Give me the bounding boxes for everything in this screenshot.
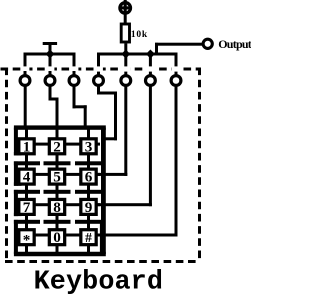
terminal column 3 xyxy=(69,71,79,85)
keyboard boundary dashed bottom edge xyxy=(5,260,200,263)
keypad right border xyxy=(101,128,106,254)
wire column 2 to keypad xyxy=(49,86,59,128)
wire bus to terminal column 1 xyxy=(24,54,27,75)
wire key 1 stubs xyxy=(25,129,28,161)
wire row 2 links xyxy=(35,173,100,176)
key 7 xyxy=(19,199,34,216)
wire key 6 stubs xyxy=(87,165,90,191)
row bar 3 xyxy=(14,220,103,224)
terminal row 2 xyxy=(121,76,131,86)
wire row 3 links xyxy=(35,203,100,206)
wire bus to terminal row 1 xyxy=(97,54,100,75)
keypad bottom border xyxy=(14,252,106,257)
svg-text:6: 6 xyxy=(85,169,93,186)
svg-text:0: 0 xyxy=(53,229,61,246)
junction column bus xyxy=(46,50,55,59)
wire column 3 to keypad xyxy=(73,86,87,128)
row bar 2 xyxy=(14,190,103,194)
wire bus to terminal column 2 xyxy=(49,54,52,75)
svg-text:2: 2 xyxy=(53,138,61,155)
key 9 xyxy=(81,199,96,216)
svg-text:7: 7 xyxy=(23,199,31,216)
wire row 1 from terminal xyxy=(97,86,117,140)
wire row 3 from terminal xyxy=(96,86,152,206)
row bar 1 xyxy=(14,161,103,165)
terminal row 1 xyxy=(94,76,104,86)
key 4 xyxy=(19,169,34,186)
key 3 xyxy=(81,138,96,155)
wire row 2 from terminal xyxy=(96,86,127,176)
wire key # stubs xyxy=(87,223,90,252)
wire row bus xyxy=(97,53,178,56)
key 6 xyxy=(81,169,96,186)
wire key 5 stubs xyxy=(56,165,59,191)
wire key 2 stubs xyxy=(56,129,59,161)
wire resistor to junction xyxy=(124,43,127,54)
key # xyxy=(81,230,96,245)
wire column bus xyxy=(24,53,76,56)
wire junction to terminal row 3 xyxy=(149,54,152,75)
wire key 4 stubs xyxy=(25,165,28,191)
wire key 3 stubs xyxy=(87,129,90,161)
wire bus to terminal column 3 xyxy=(73,54,76,75)
junction under resistor xyxy=(121,50,130,59)
svg-text:Keyboard: Keyboard xyxy=(34,268,163,294)
wire bus end to terminal row 4 xyxy=(175,54,178,75)
wire key 8 stubs xyxy=(56,193,59,220)
keypad inner right rail xyxy=(100,222,103,254)
terminal column 1 xyxy=(20,71,30,85)
wire output riser xyxy=(155,43,158,54)
keypad top border xyxy=(14,125,106,129)
svg-text:8: 8 xyxy=(53,199,61,216)
wire bar to bus xyxy=(49,45,52,54)
svg-text:9: 9 xyxy=(85,199,93,216)
keyboard boundary dashed top edge xyxy=(1,66,201,71)
svg-text:#: # xyxy=(85,230,92,245)
key * xyxy=(19,230,34,249)
key 0 xyxy=(49,229,64,246)
wire column 1 to keypad xyxy=(24,86,27,128)
common bar symbol xyxy=(43,42,57,45)
wire to output terminal xyxy=(155,43,203,46)
power supply terminal (+) xyxy=(120,0,131,13)
junction output tap xyxy=(146,50,155,59)
keyboard boundary dashed left edge xyxy=(5,68,8,263)
wire key 9 stubs xyxy=(87,193,90,220)
svg-text:1: 1 xyxy=(23,138,31,155)
svg-text:3: 3 xyxy=(85,138,93,155)
output terminal xyxy=(203,39,212,48)
key 1 xyxy=(19,138,34,155)
terminal row 3 xyxy=(146,76,156,86)
svg-text:Output: Output xyxy=(218,37,251,51)
wire row 4 links xyxy=(35,234,100,237)
wire key 0 stubs xyxy=(56,223,59,252)
keyboard boundary dashed right edge xyxy=(198,68,201,263)
key 8 xyxy=(49,199,64,216)
svg-text:10k: 10k xyxy=(131,30,148,40)
svg-text:4: 4 xyxy=(23,169,31,186)
wire power to resistor xyxy=(124,14,127,24)
wire junction to terminal row 2 xyxy=(124,54,127,75)
key 2 xyxy=(49,138,64,155)
terminal row 4 xyxy=(171,76,181,86)
wire key * stubs xyxy=(25,223,28,252)
wire key 7 stubs xyxy=(25,193,28,220)
wire row 1 links xyxy=(35,143,100,146)
wire row 4 from terminal xyxy=(96,86,178,237)
resistor R1 10k xyxy=(121,24,129,42)
svg-text:5: 5 xyxy=(53,169,61,186)
terminal column 2 xyxy=(45,71,55,85)
keypad left border xyxy=(14,128,22,254)
key 5 xyxy=(49,169,64,186)
